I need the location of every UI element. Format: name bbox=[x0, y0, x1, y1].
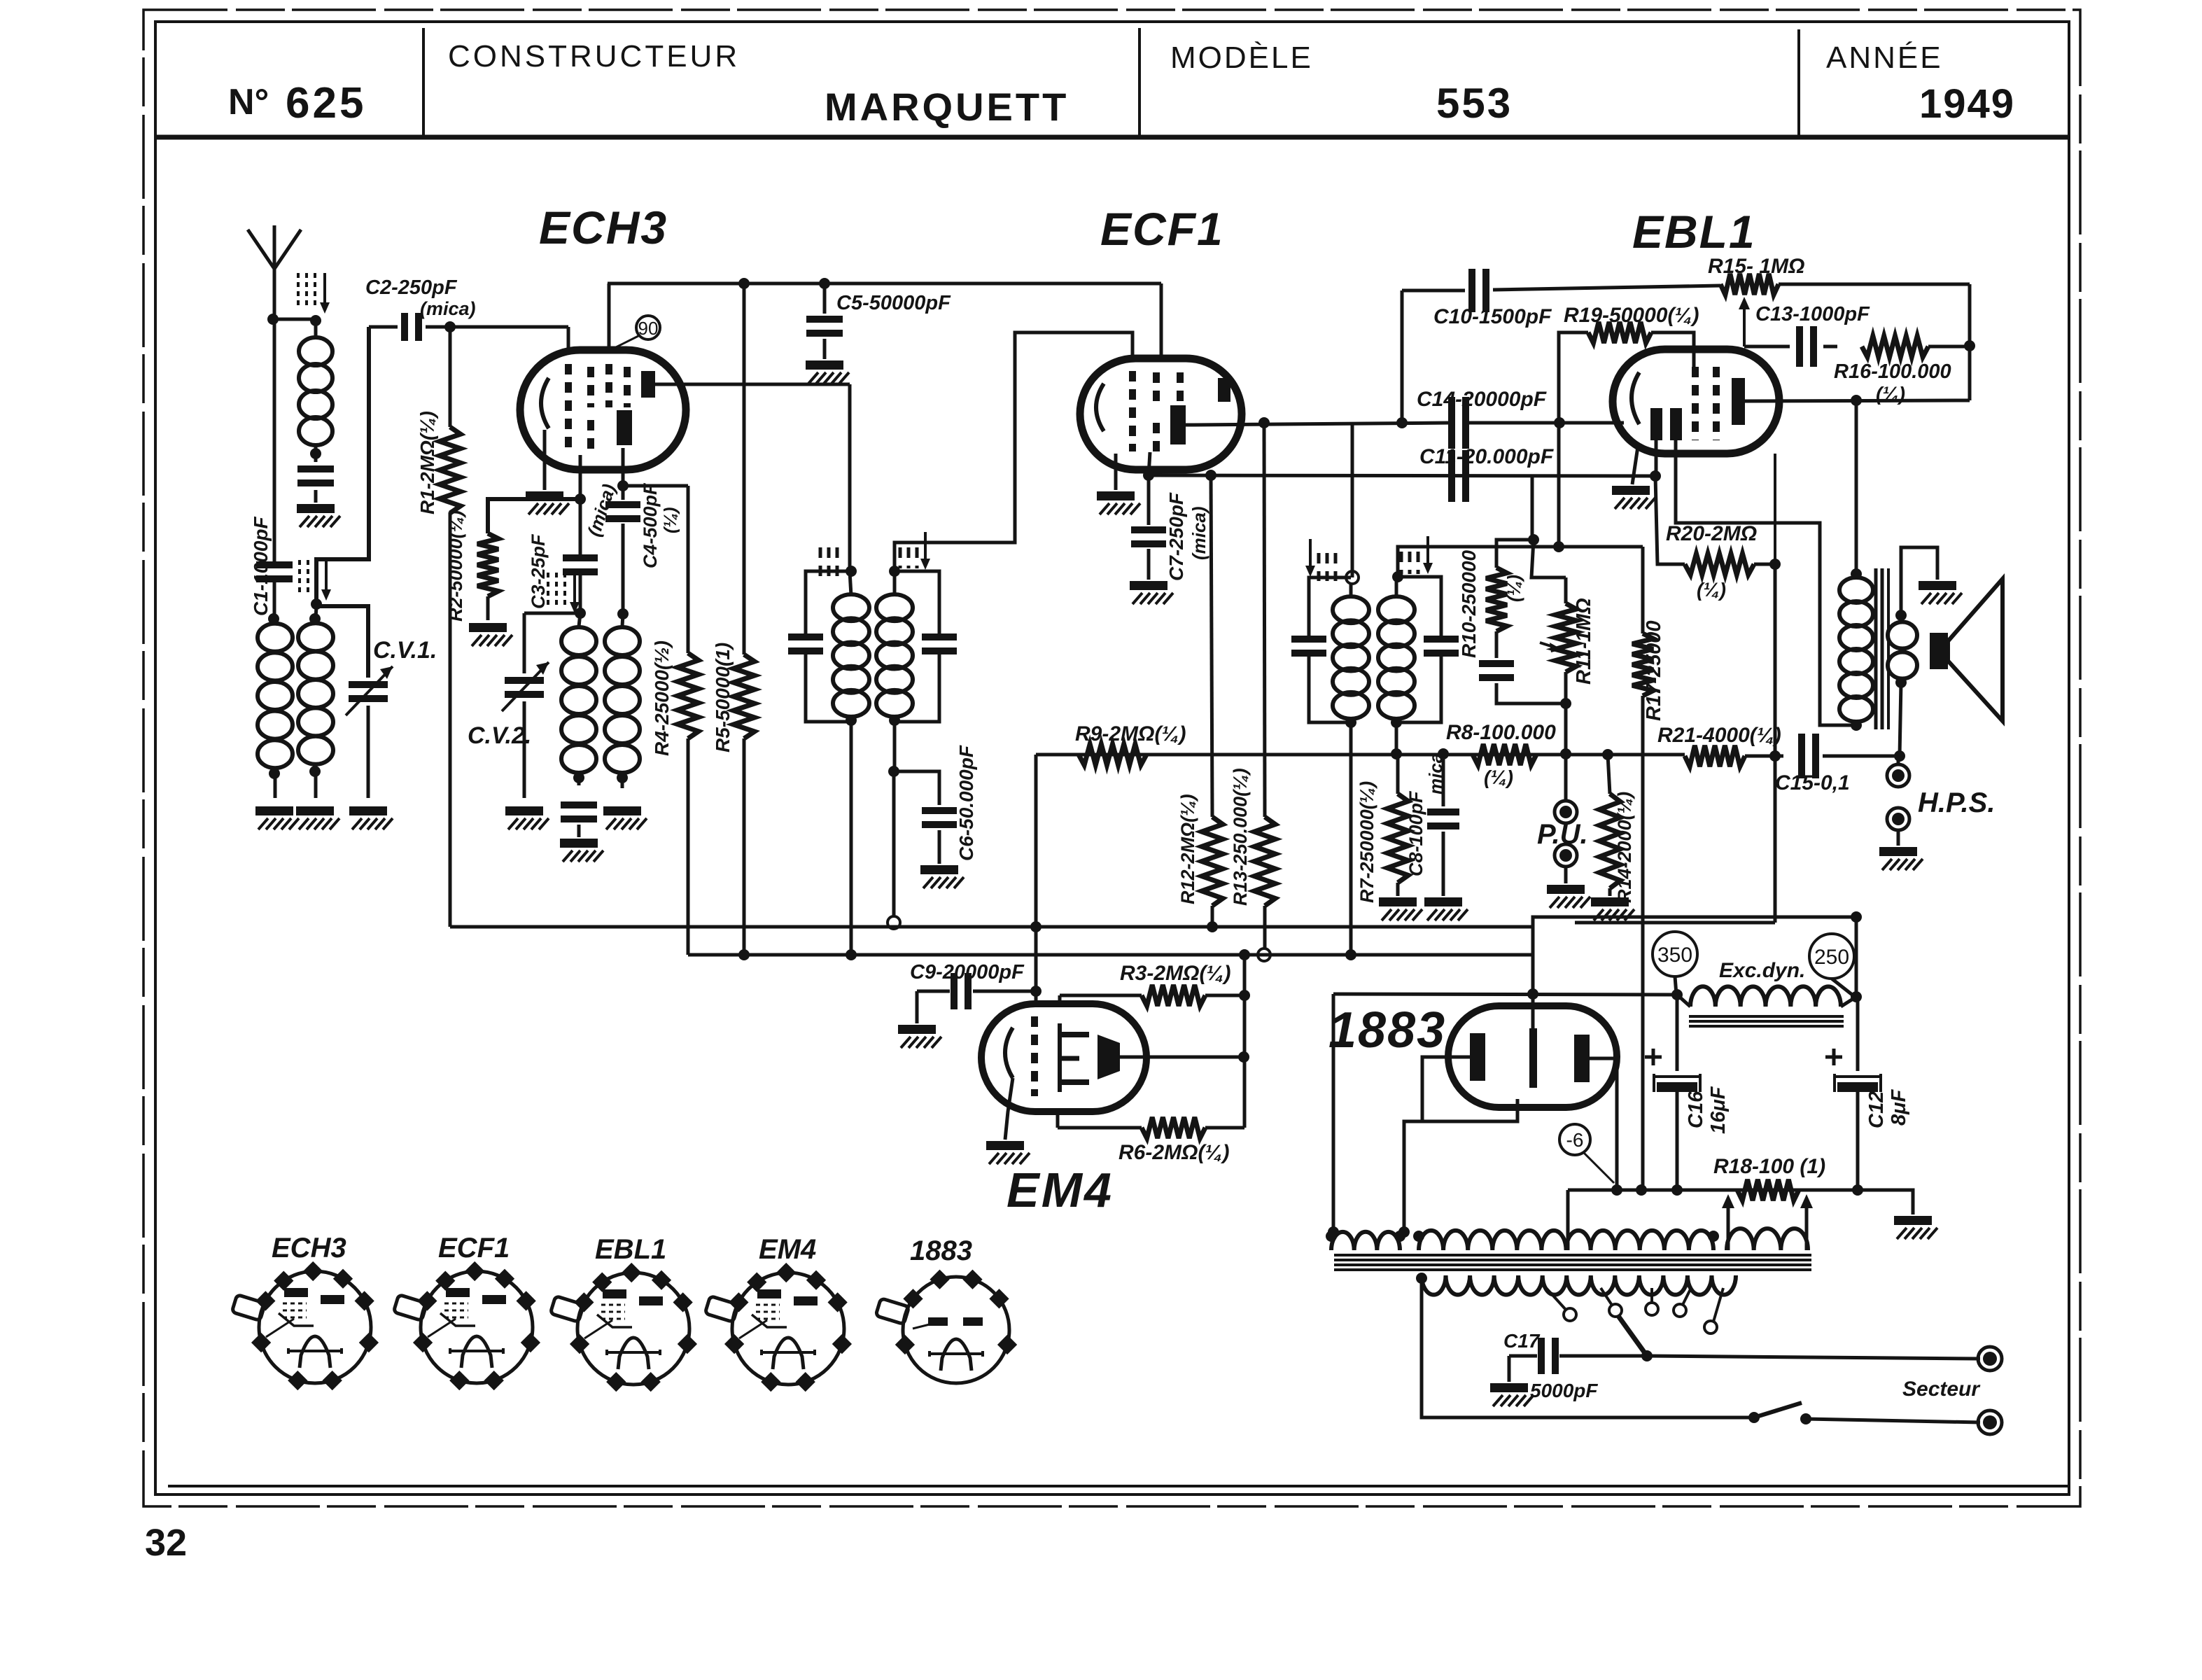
HT winding bbox=[1413, 1231, 1719, 1250]
svg-text:C16: C16 bbox=[1685, 1091, 1707, 1128]
1883 anode 2 bbox=[1574, 1035, 1590, 1082]
svg-text:mica: mica bbox=[1425, 753, 1446, 794]
label C8 bbox=[1405, 753, 1446, 876]
svg-text:ECF1: ECF1 bbox=[1100, 203, 1224, 255]
svg-text:553: 553 bbox=[1436, 80, 1513, 127]
jack secteur top bbox=[1978, 1347, 2002, 1371]
wire C2 to ECH3 grid bbox=[450, 327, 568, 351]
label C2 bbox=[365, 276, 476, 319]
ECH3 grid columns bbox=[568, 364, 627, 455]
label C17 bbox=[1503, 1330, 1541, 1352]
IF1 primary cap bbox=[788, 571, 851, 722]
svg-text:R4-25000(½): R4-25000(½) bbox=[651, 640, 673, 756]
resistor R15 1Mohm bbox=[1720, 274, 1970, 295]
svg-text:C6-50.000pF: C6-50.000pF bbox=[955, 745, 977, 861]
capacitor C12 8uF bbox=[1825, 1049, 1881, 1196]
primary winding bbox=[1416, 1273, 1736, 1295]
wire B+ bus bbox=[688, 953, 1533, 957]
svg-text:R12-2MΩ(¼): R12-2MΩ(¼) bbox=[1177, 794, 1198, 904]
svg-text:R10-250000: R10-250000 bbox=[1458, 549, 1480, 658]
capacitor C7 250pF bbox=[1131, 475, 1166, 580]
EM4 target wire bbox=[1120, 1051, 1249, 1063]
wire bias to ground bbox=[1858, 1190, 1913, 1214]
EM4 cathode bbox=[1005, 1028, 1013, 1078]
core marks above L4 bbox=[300, 560, 331, 601]
ground C8 bbox=[1424, 897, 1468, 920]
capacitor C13 1000pF bbox=[1744, 326, 1837, 367]
label C4 bbox=[640, 482, 680, 568]
label C14 bbox=[1417, 388, 1547, 411]
resistor R12 2Mohm bbox=[1202, 475, 1223, 932]
header model 553 bbox=[1436, 80, 1513, 127]
ground L6 bbox=[603, 806, 647, 829]
primary taps bbox=[1546, 1288, 1723, 1333]
HT center tap bbox=[1566, 1190, 1570, 1250]
node antenna junction bbox=[267, 314, 279, 325]
svg-text:CONSTRUCTEUR: CONSTRUCTEUR bbox=[448, 39, 740, 73]
socket label ECF1 bbox=[438, 1233, 510, 1263]
capacitor C2 250pF bbox=[369, 313, 450, 341]
wire R11 to PU bbox=[1560, 748, 1571, 799]
label PU bbox=[1537, 819, 1588, 850]
antenna bbox=[248, 225, 301, 319]
EBL1 anode bar bbox=[1732, 378, 1745, 425]
label R16 bbox=[1834, 360, 1951, 405]
svg-text:C9-20000pF: C9-20000pF bbox=[910, 961, 1025, 983]
svg-text:C2-250pF: C2-250pF bbox=[365, 276, 458, 299]
IF1 secondary coil bbox=[876, 566, 913, 771]
wire 1883 filament bottom bbox=[1398, 1099, 1517, 1238]
capacitor C4 500pF bbox=[605, 480, 640, 614]
label R17 bbox=[1643, 621, 1665, 722]
svg-text:R6-2MΩ(¼): R6-2MΩ(¼) bbox=[1118, 1141, 1229, 1164]
header CONSTRUCTEUR bbox=[448, 39, 740, 73]
svg-text:(¼): (¼) bbox=[1876, 383, 1905, 405]
node osc grid bbox=[575, 608, 586, 619]
wire AF line bbox=[1036, 753, 1685, 757]
socket label EM4 bbox=[759, 1234, 816, 1265]
svg-text:Exc.dyn.: Exc.dyn. bbox=[1719, 959, 1805, 982]
label C12 bbox=[1865, 1088, 1910, 1128]
pointer circle 90 bbox=[610, 316, 660, 350]
header MARQUETT bbox=[825, 85, 1069, 129]
socket EM4 bbox=[705, 1263, 852, 1392]
header ANNEE bbox=[1826, 41, 1943, 75]
ground CV1 bbox=[349, 806, 393, 829]
svg-text:Secteur: Secteur bbox=[1902, 1378, 1981, 1401]
svg-text:R18-100 (1): R18-100 (1) bbox=[1713, 1155, 1825, 1178]
label C10 bbox=[1433, 305, 1552, 328]
capacitor C8 100pF bbox=[1427, 754, 1459, 896]
label R14 bbox=[1614, 792, 1635, 903]
node R12 top bbox=[1205, 470, 1216, 481]
OT primary coil bbox=[1839, 568, 1873, 731]
label R19 bbox=[1564, 304, 1699, 327]
wire 1883 filament riser bbox=[1527, 917, 1538, 1028]
label R12 bbox=[1177, 794, 1198, 904]
label C5 bbox=[836, 292, 951, 314]
resistor R20 2Mohm bbox=[1655, 476, 1781, 575]
label C3 bbox=[528, 533, 549, 609]
EM4 grid column bbox=[1031, 1016, 1038, 1096]
svg-text:N°: N° bbox=[228, 82, 269, 122]
svg-text:(mica): (mica) bbox=[420, 298, 476, 319]
node anode-primary bbox=[1851, 395, 1862, 406]
tube ECF1 envelope bbox=[1080, 358, 1242, 470]
ground R14 bbox=[1591, 897, 1634, 920]
socket label ECH3 bbox=[272, 1233, 346, 1263]
jack secteur bottom bbox=[1978, 1410, 2002, 1434]
ground CV2 bbox=[505, 806, 549, 829]
capacitor R10 series cap bbox=[1479, 660, 1571, 709]
wave trap coil L1 bbox=[299, 315, 332, 459]
ECF1 anode bar bbox=[1170, 378, 1230, 444]
svg-text:ECH3: ECH3 bbox=[272, 1233, 346, 1263]
ground L4 bbox=[296, 806, 339, 829]
IF2 secondary coil bbox=[1378, 571, 1415, 754]
ECF1 cathode bbox=[1096, 384, 1104, 431]
ECH3 osc anode bar bbox=[617, 410, 632, 445]
header N-number bbox=[228, 79, 366, 127]
wire AVC bus bbox=[450, 925, 1533, 929]
label R18 bbox=[1713, 1155, 1825, 1178]
EM4 electrode E bbox=[1060, 1023, 1089, 1092]
resistor R4 25000 bbox=[678, 486, 699, 955]
svg-text:1883: 1883 bbox=[1328, 1002, 1446, 1058]
svg-text:(¼): (¼) bbox=[661, 507, 680, 534]
svg-text:90: 90 bbox=[638, 318, 659, 339]
ground C6 bbox=[920, 865, 964, 888]
label R4 bbox=[651, 640, 673, 756]
wire EBL1 anode bbox=[1745, 400, 1970, 401]
node C8 top bbox=[1438, 748, 1449, 759]
header year 1949 bbox=[1919, 81, 2015, 127]
svg-text:ECF1: ECF1 bbox=[438, 1233, 510, 1263]
R11 wiper arrow bbox=[1540, 643, 1562, 652]
label C13 bbox=[1755, 303, 1870, 325]
label C1 bbox=[250, 516, 272, 616]
label 5000pF bbox=[1530, 1380, 1598, 1401]
ground HPS bbox=[1879, 847, 1923, 870]
capacitor padder bbox=[561, 801, 597, 837]
node C15 cross bbox=[1769, 750, 1781, 762]
header divider 3 bbox=[1797, 29, 1800, 136]
label ECH3 title bbox=[539, 202, 668, 253]
svg-text:C7-250pF: C7-250pF bbox=[1165, 492, 1187, 581]
svg-text:ECH3: ECH3 bbox=[539, 202, 668, 253]
label CV1 bbox=[373, 637, 437, 664]
node C5 top bbox=[819, 278, 830, 289]
core marks above L1 bbox=[298, 273, 330, 314]
wire antenna to coil L2 top bbox=[273, 318, 316, 321]
ECH3 anode bar bbox=[641, 371, 655, 398]
label R3 bbox=[1120, 962, 1230, 985]
svg-text:R8-100.000: R8-100.000 bbox=[1446, 721, 1556, 744]
resistor R16 100000 bbox=[1862, 336, 1970, 357]
heater winding bbox=[1326, 1231, 1405, 1250]
label R7 bbox=[1356, 781, 1377, 903]
svg-text:16μF: 16μF bbox=[1707, 1086, 1730, 1134]
wire 250 rail bbox=[1856, 917, 1858, 1071]
resistor R13 250000 bbox=[1254, 423, 1275, 961]
capacitor C1 1000pF bbox=[256, 319, 293, 619]
label EM4 title bbox=[1007, 1163, 1114, 1217]
wire mains lower bbox=[1422, 1278, 1750, 1417]
svg-text:ANNÉE: ANNÉE bbox=[1826, 41, 1943, 75]
svg-text:R5-50000(1): R5-50000(1) bbox=[712, 643, 734, 752]
svg-text:MARQUETT: MARQUETT bbox=[825, 85, 1069, 129]
svg-text:8μF: 8μF bbox=[1888, 1088, 1910, 1126]
socket EBL1 bbox=[550, 1263, 697, 1392]
jack PU bottom bbox=[1555, 844, 1577, 883]
svg-text:C8-100pF: C8-100pF bbox=[1405, 790, 1426, 876]
node ECF1 cathode bbox=[1143, 470, 1154, 481]
1883 anode 1 bbox=[1470, 1033, 1485, 1081]
tube ECH3 envelope bbox=[520, 350, 686, 470]
header bottom rule bbox=[155, 135, 2069, 140]
wire secondary to HPS bbox=[1894, 682, 1905, 762]
wire plate feedback top bbox=[1401, 290, 1404, 423]
node R14 top bbox=[1602, 749, 1613, 760]
svg-text:C.V.2.: C.V.2. bbox=[468, 722, 531, 749]
wire ECH3 screen riser bbox=[608, 283, 611, 351]
tube EBL1 envelope bbox=[1613, 349, 1779, 454]
label R6 bbox=[1118, 1141, 1229, 1164]
svg-text:R7-250000(¼): R7-250000(¼) bbox=[1356, 781, 1377, 903]
svg-text:R9-2MΩ(¼): R9-2MΩ(¼) bbox=[1075, 722, 1186, 745]
capacitor C14 20000pF bbox=[1448, 397, 1469, 449]
label CV2 bbox=[468, 722, 531, 749]
label R9 bbox=[1075, 722, 1186, 745]
socket 1883 bbox=[876, 1270, 1017, 1383]
EBL1 diode2 lead bbox=[1676, 440, 1856, 725]
label ECF1 title bbox=[1100, 203, 1224, 255]
heater arrows bbox=[1722, 1194, 1813, 1250]
svg-text:C13-1000pF: C13-1000pF bbox=[1755, 303, 1870, 325]
capacitor C10 1500pF bbox=[1402, 269, 1720, 312]
resistor R10 250000 bbox=[1486, 540, 1534, 658]
wire IF1 sec to ECF1 grid bbox=[895, 332, 1132, 571]
node C14 out bbox=[1466, 417, 1624, 428]
label R20 bbox=[1666, 522, 1757, 601]
core marks C3 bbox=[548, 573, 580, 613]
inner border frame bbox=[155, 22, 2069, 1494]
svg-text:R20-2MΩ: R20-2MΩ bbox=[1666, 522, 1757, 545]
arrow C13 tap bbox=[1739, 297, 1750, 346]
speaker bbox=[1930, 579, 2003, 721]
wire R20 to C15 bbox=[1774, 454, 1776, 756]
svg-text:R16-100.000: R16-100.000 bbox=[1834, 360, 1951, 383]
oscillator coil L5 bbox=[561, 613, 596, 785]
wire to CV2 bbox=[524, 613, 580, 673]
svg-text:C4-500pF: C4-500pF bbox=[640, 482, 661, 568]
wire W679 cathode-diode line bbox=[1149, 475, 1655, 476]
resistor R7 250000 bbox=[1387, 754, 1408, 896]
ground R18 bbox=[1894, 1216, 1937, 1239]
IF1 core marks bbox=[820, 532, 930, 578]
pointer circle -6 bbox=[1559, 1124, 1614, 1183]
resistor R17 25000 bbox=[1632, 547, 1653, 1190]
label C9 bbox=[910, 961, 1025, 983]
wire ECH3 anode bbox=[655, 384, 850, 571]
svg-text:350: 350 bbox=[1657, 944, 1692, 967]
secondary coil L4 bbox=[298, 606, 333, 798]
IF2 riser to ECF1 anode bbox=[1351, 423, 1354, 577]
svg-text:(¼): (¼) bbox=[1503, 575, 1524, 602]
resistor R3 2Mohm bbox=[1060, 985, 1244, 1006]
capacitor C-trap bbox=[297, 454, 334, 503]
node R7 top bbox=[1391, 748, 1402, 759]
label C15 bbox=[1775, 771, 1850, 794]
svg-text:C17: C17 bbox=[1503, 1330, 1541, 1352]
ground L3 bbox=[255, 806, 299, 829]
socket ECF1 bbox=[393, 1261, 540, 1390]
EBL1 cathode bbox=[1632, 372, 1639, 424]
node R15 out bbox=[1964, 284, 1975, 351]
wire ECF1 anode bbox=[1186, 423, 1451, 425]
svg-text:(¼): (¼) bbox=[1697, 579, 1726, 601]
label R5 bbox=[712, 643, 734, 752]
svg-text:EM4: EM4 bbox=[1007, 1163, 1114, 1217]
outer dashed border frame bbox=[143, 10, 2080, 1506]
resistor R8 100000 bbox=[1473, 744, 1536, 765]
svg-text:R14-2000(¼): R14-2000(¼) bbox=[1614, 792, 1635, 903]
resistor R14 2000 bbox=[1599, 755, 1620, 896]
label Secteur bbox=[1902, 1378, 1981, 1401]
label C16 bbox=[1685, 1086, 1730, 1134]
label Exc dyn bbox=[1719, 959, 1805, 982]
node R5 bottom bbox=[738, 949, 750, 960]
ECH3 cathode bbox=[541, 378, 549, 428]
wire R16 junction down bbox=[1968, 346, 1972, 400]
svg-text:H.P.S.: H.P.S. bbox=[1918, 787, 1995, 818]
header MODELE bbox=[1170, 41, 1313, 75]
svg-text:C3-25pF: C3-25pF bbox=[528, 533, 549, 609]
capacitor C16 16uF bbox=[1645, 1049, 1700, 1196]
label C11 bbox=[1419, 445, 1554, 468]
svg-text:C14-20000pF: C14-20000pF bbox=[1417, 388, 1547, 411]
wire osc anode bbox=[623, 448, 688, 486]
socket label 1883 bbox=[910, 1235, 972, 1266]
svg-text:R21-4000(¼): R21-4000(¼) bbox=[1657, 724, 1781, 747]
ECH3 cathode lead and ground bbox=[526, 430, 569, 514]
svg-text:1883: 1883 bbox=[910, 1235, 972, 1266]
label R2 bbox=[445, 510, 466, 622]
resistor R5 50000 bbox=[734, 283, 755, 955]
wire R20 branch low bbox=[1575, 756, 1775, 923]
label EBL1 title bbox=[1632, 206, 1756, 258]
label 1883 title bbox=[1328, 1002, 1446, 1058]
svg-text:1949: 1949 bbox=[1919, 81, 2015, 127]
svg-text:(mica): (mica) bbox=[1188, 506, 1209, 560]
wire EM4 riser to bus bbox=[1239, 949, 1250, 1128]
wire 1883 anode2 bbox=[1590, 1058, 1622, 1196]
variable capacitor CV2 bbox=[502, 662, 549, 798]
switch bbox=[1748, 1403, 1980, 1424]
transformer core bbox=[1334, 1255, 1811, 1270]
node IF1 bottom bbox=[846, 949, 857, 960]
node C10 bottom bbox=[1396, 417, 1408, 428]
wire 350 line bbox=[1333, 989, 1683, 1000]
capacitor C11 20000pF bbox=[1448, 450, 1469, 502]
EM4 target bbox=[1098, 1035, 1120, 1079]
header divider 1 bbox=[422, 28, 425, 136]
EBL1 cathode ground bbox=[1612, 447, 1655, 509]
potentiometer R11 1Mohm bbox=[1555, 577, 1576, 754]
wire IF1 sec to AVC bus bbox=[888, 771, 900, 929]
ECF1 g3 ground bbox=[1097, 454, 1140, 514]
wire bias bus bbox=[1568, 1184, 1858, 1196]
resistor R1 2Mohm bbox=[440, 327, 461, 927]
svg-text:C1-1000pF: C1-1000pF bbox=[250, 516, 272, 616]
label mica C3 bbox=[583, 482, 619, 539]
svg-text:250: 250 bbox=[1814, 946, 1849, 969]
1883 filament bbox=[1529, 1028, 1537, 1088]
capacitor C9 20000pF bbox=[917, 973, 1036, 1009]
voltage selector bbox=[1618, 1316, 1653, 1361]
EBL1 diode plates bbox=[1650, 408, 1682, 440]
jack HPS top bbox=[1887, 756, 1909, 787]
page number 32 bbox=[145, 1522, 187, 1564]
wire screen bus bbox=[608, 283, 1161, 360]
svg-text:C11-20.000pF: C11-20.000pF bbox=[1419, 445, 1554, 468]
bottom double rule bbox=[168, 1485, 2069, 1487]
wire AVC bus right bbox=[1533, 911, 1862, 927]
wire ECF1 cathode down bbox=[1149, 452, 1150, 475]
svg-text:EBL1: EBL1 bbox=[595, 1234, 666, 1265]
svg-text:(¼): (¼) bbox=[1484, 766, 1513, 788]
svg-text:EM4: EM4 bbox=[759, 1234, 816, 1265]
label R11 bbox=[1573, 598, 1595, 685]
ground PU bbox=[1547, 885, 1590, 908]
svg-text:32: 32 bbox=[145, 1522, 187, 1564]
svg-text:MODÈLE: MODÈLE bbox=[1170, 41, 1313, 75]
label R10 bbox=[1458, 549, 1524, 658]
ground C5 bbox=[806, 360, 849, 384]
EM4 cathode ground bbox=[986, 1078, 1030, 1164]
variable capacitor CV1 bbox=[311, 327, 393, 798]
ECF1 grid columns bbox=[1132, 371, 1180, 454]
svg-text:R19-50000(¼): R19-50000(¼) bbox=[1564, 304, 1699, 327]
label HPS bbox=[1918, 787, 1995, 818]
oscillator coil L6 bbox=[605, 608, 640, 788]
capacitor C5 50000pF bbox=[806, 283, 843, 359]
ground padder bbox=[560, 839, 603, 862]
wire R9 to AVC bus bbox=[1030, 755, 1042, 932]
OT secondary top ground bbox=[1901, 547, 1962, 615]
field coil Exc dyn bbox=[1677, 986, 1862, 1007]
svg-text:R1-2MΩ(¼): R1-2MΩ(¼) bbox=[416, 411, 438, 514]
svg-text:R3-2MΩ(¼): R3-2MΩ(¼) bbox=[1120, 962, 1230, 985]
wire 1883 left loop bbox=[1328, 994, 1339, 1238]
tube 1883 envelope bbox=[1448, 1006, 1617, 1107]
IF2 core marks bbox=[1305, 536, 1433, 581]
label R21 bbox=[1657, 724, 1781, 747]
capacitor C3 25pF bbox=[563, 455, 598, 613]
socket label EBL1 bbox=[595, 1234, 666, 1265]
svg-text:C5-50000pF: C5-50000pF bbox=[836, 292, 951, 314]
EBL1 grid columns bbox=[1695, 367, 1716, 440]
svg-text:C15-0,1: C15-0,1 bbox=[1775, 771, 1850, 794]
node C2-R1 bbox=[444, 321, 456, 332]
IF1 secondary cap bbox=[895, 571, 957, 722]
svg-text:R17-25000: R17-25000 bbox=[1643, 621, 1665, 722]
node R13 top bbox=[1258, 417, 1270, 428]
svg-text:C.V.1.: C.V.1. bbox=[373, 637, 437, 664]
node R5 top bbox=[738, 278, 750, 289]
resistor R6 2Mohm bbox=[1058, 1112, 1244, 1138]
wire 350 to C16 bbox=[1676, 995, 1679, 1071]
